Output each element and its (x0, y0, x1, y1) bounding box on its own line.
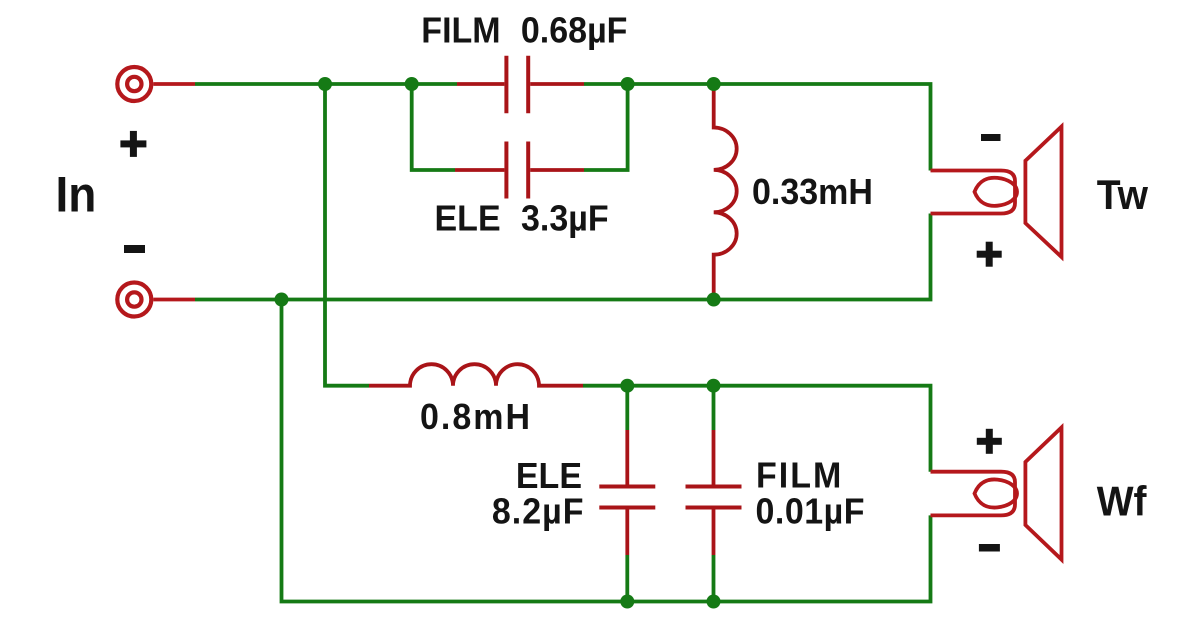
junction node: bottom rail x=713.5 (707, 595, 721, 609)
input terminal + (red rings) (117, 67, 195, 101)
inductor L2 0.8mH (series, woofer rail) (369, 364, 583, 386)
capacitor C4 FILM 0.01uF (shunt) (686, 430, 742, 555)
capacitor C2 ELE 3.3uF (parallel branch) (455, 142, 584, 199)
svg-text:ELE: ELE (516, 456, 582, 496)
input terminal - (red rings) (117, 283, 195, 317)
wire: middle rail (input- return) (195, 214, 931, 300)
input plus sign (120, 131, 146, 157)
junction node: top rail x=325 (318, 77, 332, 91)
svg-text:0.68µF: 0.68µF (521, 11, 628, 51)
woofer plus sign (977, 429, 1002, 454)
junction node: woofer rail x=627.3 (620, 379, 634, 393)
junction node: top rail x=713.7 (707, 77, 721, 91)
svg-text:0.01µF: 0.01µF (756, 492, 866, 532)
wire: vertical from middle rail down to bottom rail (282, 300, 931, 602)
woofer minus sign (979, 544, 1000, 552)
speaker Wf (woofer) (931, 428, 1062, 560)
junction node: top rail x=411.7 (405, 77, 419, 91)
svg-text:Tw: Tw (1097, 171, 1149, 219)
tweeter minus sign (981, 134, 1001, 141)
wire: woofer rail green (after 0.8mH coil) (583, 386, 931, 472)
svg-text:Wf: Wf (1097, 477, 1147, 525)
capacitor C3 ELE 8.2uF (shunt) (599, 430, 655, 555)
capacitor C1 FILM 0.68uF (series, top rail) (457, 56, 584, 114)
junction node: bottom rail x=627.3 (620, 595, 634, 609)
inductor L1 0.33mH (vertical, shunt) (714, 84, 737, 300)
junction node: top rail x=627.6 (621, 77, 635, 91)
speaker Tw (tweeter) (931, 127, 1062, 258)
svg-text:8.2µF: 8.2µF (492, 492, 585, 532)
wire: green leads of C3 (625, 386, 629, 602)
input minus sign (124, 245, 145, 253)
svg-text:FILM: FILM (756, 456, 843, 496)
svg-text:ELE: ELE (435, 199, 501, 239)
svg-text:In: In (56, 168, 97, 223)
junction node: middle rail x=713.7 (707, 293, 721, 307)
svg-text:3.3µF: 3.3µF (521, 199, 609, 239)
tweeter plus sign (977, 242, 1002, 267)
wire: top rail right of FILM cap (584, 84, 931, 171)
svg-text:0.33mH: 0.33mH (752, 172, 873, 212)
wire: green leads of C4 (712, 386, 716, 602)
junction node: woofer rail x=713.5 (707, 379, 721, 393)
svg-text:FILM: FILM (421, 11, 500, 51)
svg-text:0.8mH: 0.8mH (420, 397, 532, 437)
junction node: middle rail x=281.5 (275, 293, 289, 307)
wire: top rail left (green, input+ to FILM cap) (195, 82, 457, 86)
wire: vertical feed from top rail to woofer low-pass rail (325, 84, 369, 386)
wire: ELE cap parallel branch (down, across, up) (412, 84, 628, 170)
